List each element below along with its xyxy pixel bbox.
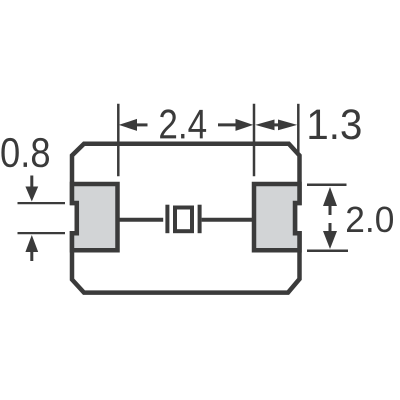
extension line at left pad inner edge [117,104,120,176]
0.8 lower extension line [18,232,66,234]
wire crystal to right pad [202,218,254,222]
crystal right plate [198,205,202,234]
0.8 upper extension line [18,202,66,204]
0.8 up arrow [25,235,38,252]
left terminal pad [72,184,118,250]
2.0 down arrow [329,223,332,232]
wire left pad to crystal [118,218,164,222]
right terminal pad [254,184,300,250]
dim label 2.4 [160,109,176,138]
dim label 1.3 [309,110,326,139]
dim 1.3 double arrow [255,120,274,131]
crystal resonator box [175,208,192,232]
0.8 down arrow [30,176,33,189]
dim 2.4 left arrow [119,119,137,131]
dim label 0.8 [1,138,18,167]
package body outline with castellation notches [72,144,300,293]
extension line at right pad outer edge [297,104,300,152]
crystal left plate [165,205,169,234]
extension line at right pad inner edge [253,104,256,176]
2.0 lower extension line [307,250,348,253]
dim label 2.0 [347,206,363,231]
dim 2.4 right arrow [236,119,254,131]
2.0 up arrow [323,187,337,206]
2.0 upper extension line [307,184,347,187]
